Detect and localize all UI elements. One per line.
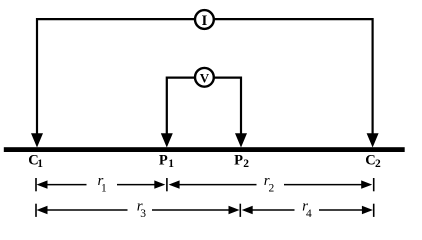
label r2 [264,173,275,194]
svg-text:4: 4 [306,208,312,220]
svg-text:2: 2 [375,158,381,170]
dimension r2 right line [284,184,362,186]
label C2 [365,152,381,170]
dimension r4 left arrow [242,206,253,214]
dimension r3 right line [152,209,230,211]
ground surface bar [4,147,405,152]
dimension r1 left arrow [37,180,48,188]
electrode C1 arrow [31,133,43,147]
label C1 [28,152,43,170]
dimension r1 right arrow [154,180,165,188]
tick at C1 (row r3) [35,204,37,217]
dimension r4 left line [253,209,295,211]
dimension r3 left arrow [37,206,48,214]
dimension r1 left line [47,184,87,186]
wire: current loop right (ammeter across and down to C2) [214,19,373,136]
label r1 [98,173,108,194]
svg-text:V: V [200,70,210,85]
label r3 [137,199,146,220]
svg-text:P: P [159,152,168,168]
wire: potential loop left (P1 up and across to voltmeter) [167,78,195,136]
svg-text:1: 1 [37,158,43,170]
label P2 [234,152,249,170]
ammeter U1 (I) [195,10,214,29]
electrode P1 arrow [161,133,173,147]
electrode P2 arrow [235,133,247,147]
dimension r1 right line [117,184,156,186]
svg-text:1: 1 [101,182,107,194]
dimension r3 left line [47,209,128,211]
dimension r2 right arrow [361,180,372,188]
dimension r2 left line [179,184,257,186]
tick at C2 (row r3) [373,204,375,217]
wire: current loop left (C1 up and across to ammeter) [37,19,195,136]
wire: potential loop right (voltmeter across and down to P2) [214,78,241,136]
tick at P2 (row r3) [239,204,241,217]
electrode C2 arrow [367,133,379,147]
dimension r4 right line [319,209,363,211]
dimension r3 right arrow [229,206,240,214]
svg-text:P: P [234,152,243,168]
dimension r2 left arrow [169,180,180,188]
svg-text:2: 2 [269,183,275,195]
dimension r4 right arrow [362,206,373,214]
tick at C1 (row r1) [35,178,37,191]
svg-text:2: 2 [243,158,249,170]
svg-text:I: I [201,13,207,29]
svg-text:1: 1 [168,158,174,170]
voltmeter U2 (V) [195,68,214,87]
label r4 [302,199,312,220]
svg-text:3: 3 [140,208,146,220]
tick at C2 (row r1) [373,178,375,191]
label P1 [159,152,174,170]
tick at P1 (row r1) [166,178,168,191]
